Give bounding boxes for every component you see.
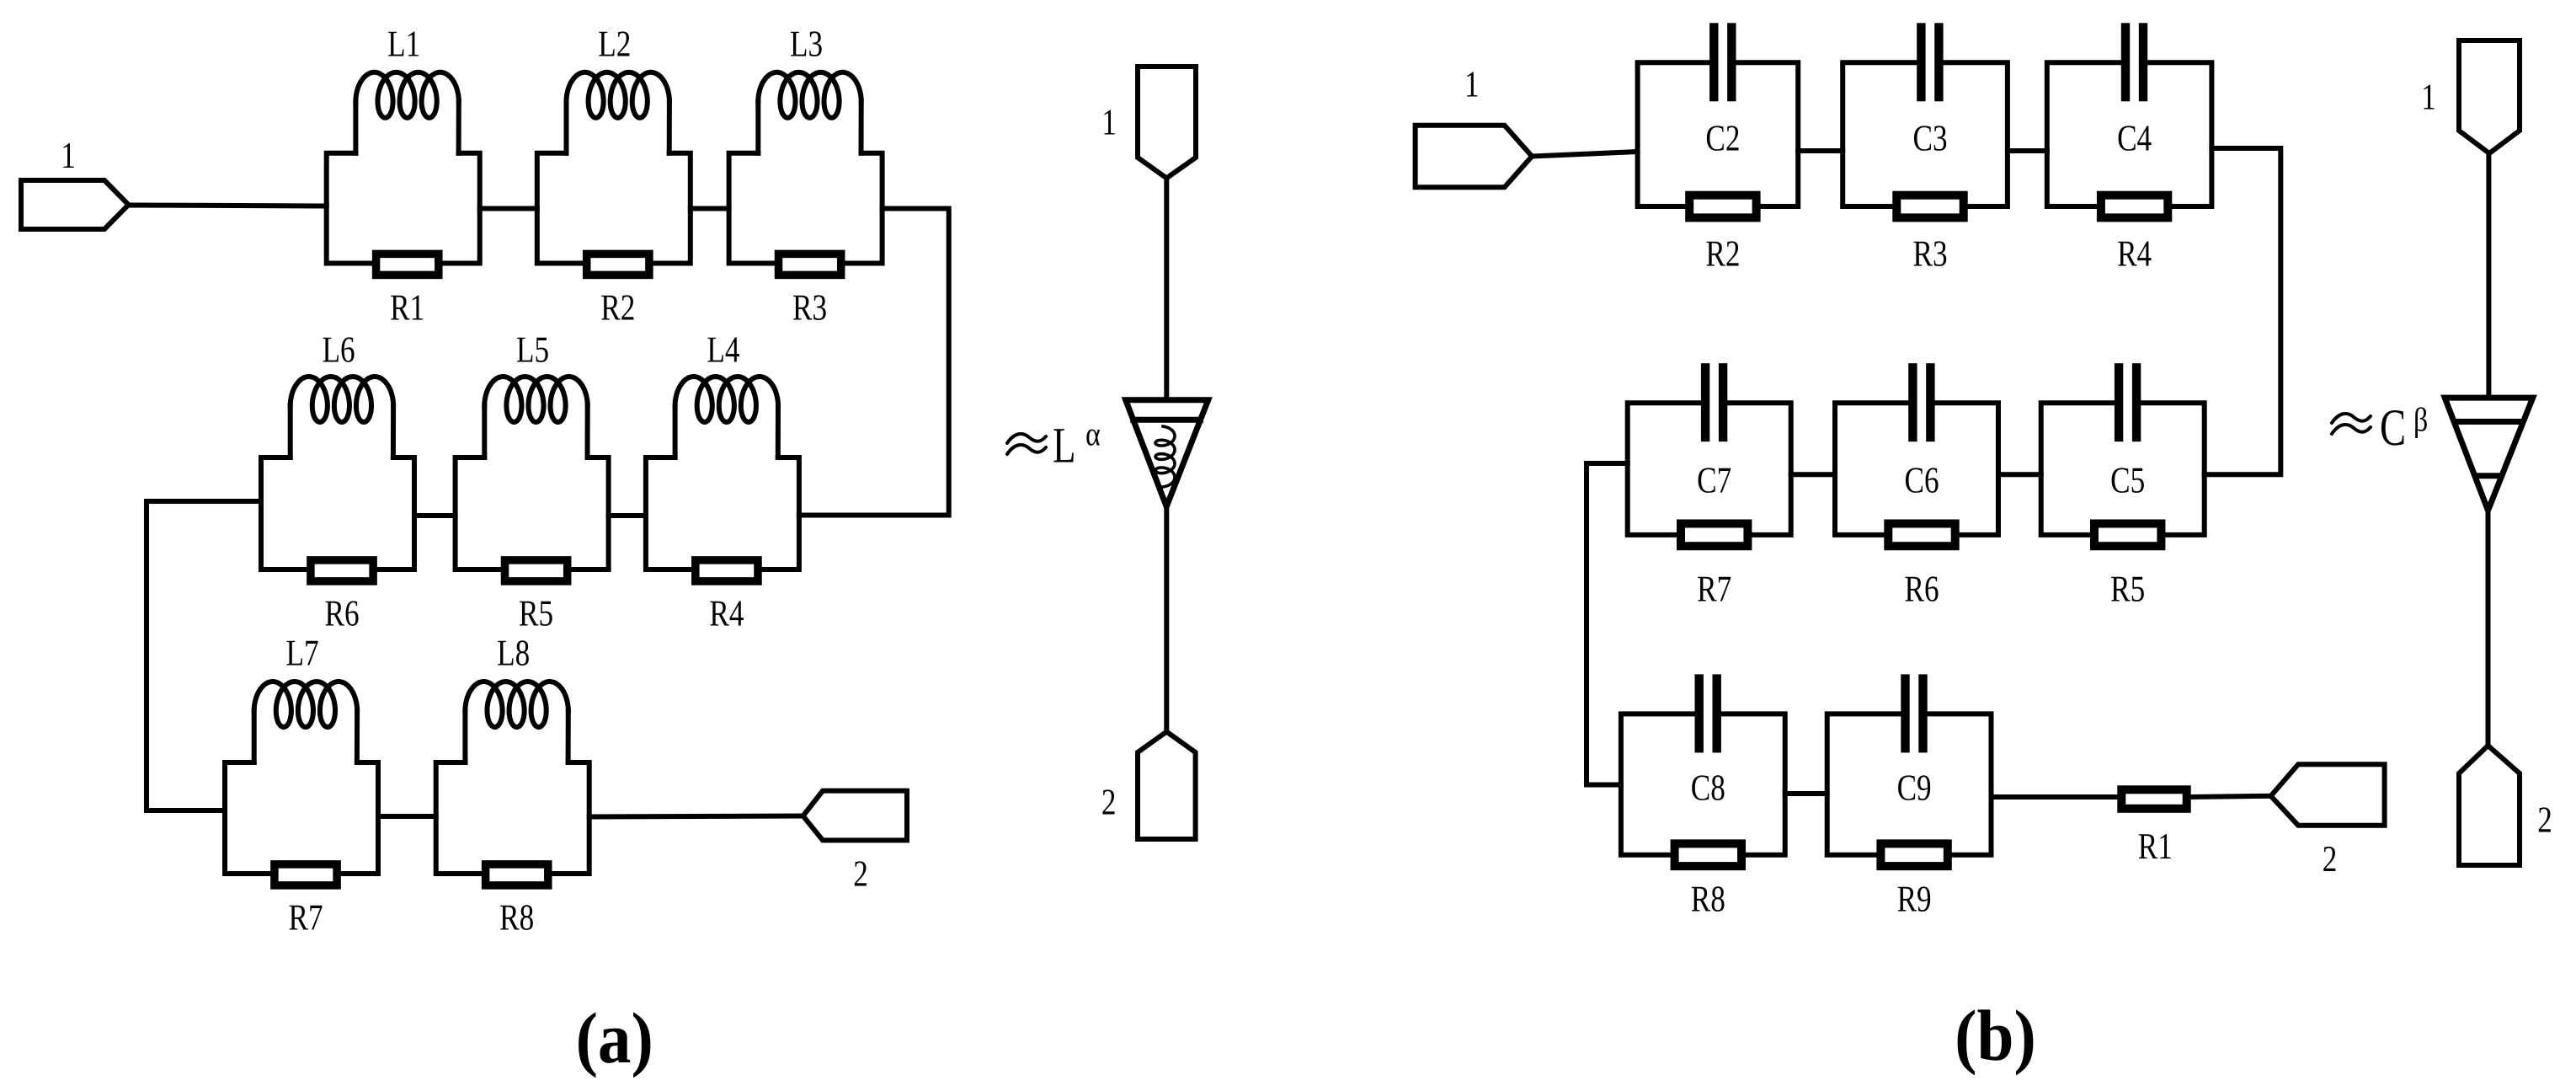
svg-text:L7: L7 bbox=[285, 633, 318, 674]
svg-text:R7: R7 bbox=[1697, 569, 1731, 610]
svg-text:R5: R5 bbox=[519, 593, 553, 634]
wire C7 down to row 3 (C8) bbox=[1587, 463, 1628, 785]
svg-text:2: 2 bbox=[1101, 782, 1117, 823]
wire C6 to C5 bbox=[1998, 472, 2041, 477]
wire L6 to L5 bbox=[414, 513, 456, 518]
wire: parallel loop box of L6/R6 bbox=[261, 457, 414, 570]
svg-text:C8: C8 bbox=[1691, 767, 1725, 809]
wire L3 down to row 2 (L4) bbox=[799, 209, 949, 516]
wire: parallel loop box of L2/R2 bbox=[537, 153, 691, 264]
resistor R9 bbox=[1880, 843, 1947, 866]
wire: parallel loop box of C2/R2 bbox=[1638, 62, 1799, 206]
inductor L7 bbox=[254, 682, 357, 762]
wire L6 down to row 3 (L7) bbox=[147, 501, 261, 810]
wire: parallel loop box of L1/R1 bbox=[327, 153, 480, 264]
svg-text:L1: L1 bbox=[387, 24, 420, 65]
svg-text:R8: R8 bbox=[1691, 879, 1725, 920]
svg-text:L: L bbox=[1053, 417, 1075, 473]
svg-text:L3: L3 bbox=[790, 24, 823, 65]
fractional inductor symbol (triangle with coil) bbox=[1126, 400, 1208, 507]
inductor L3 bbox=[758, 72, 861, 153]
resistor R7 bbox=[275, 864, 337, 885]
wire: parallel loop box of C3/R3 bbox=[1843, 62, 2008, 206]
fractional capacitor symbol (triangle with plates) bbox=[2445, 398, 2533, 511]
svg-text:L6: L6 bbox=[322, 329, 355, 371]
svg-text:R9: R9 bbox=[1897, 879, 1932, 920]
wire L5 to L4 bbox=[609, 513, 646, 518]
svg-text:C4: C4 bbox=[2117, 118, 2152, 159]
wire C9 to R1 bbox=[1992, 794, 2118, 800]
wire C3 to C4 bbox=[2008, 148, 2047, 153]
svg-text:2: 2 bbox=[2323, 838, 2338, 880]
inductor L2 bbox=[567, 72, 669, 153]
terminal port 1 (a) bbox=[21, 180, 129, 229]
capacitor C3 bbox=[1917, 23, 1925, 101]
wire port1 to C2 bbox=[1532, 152, 1637, 157]
wire: parallel loop box of C4/R4 bbox=[2047, 62, 2212, 206]
label approx L^alpha bbox=[1007, 434, 1046, 454]
wire: parallel loop box of L4/R4 bbox=[646, 457, 799, 570]
svg-text:R1: R1 bbox=[2138, 826, 2173, 867]
wire: parallel loop box of L5/R5 bbox=[456, 457, 609, 570]
svg-text:C7: C7 bbox=[1697, 460, 1731, 501]
capacitor C9 bbox=[1901, 674, 1909, 752]
wire L7 to L8 bbox=[378, 814, 436, 819]
wire: parallel loop box of C8/R8 bbox=[1621, 714, 1785, 854]
svg-text:1: 1 bbox=[1464, 64, 1480, 105]
svg-text:1: 1 bbox=[61, 135, 76, 176]
wire port1 to L1 bbox=[129, 206, 327, 206]
svg-text:R6: R6 bbox=[324, 593, 359, 634]
svg-text:R6: R6 bbox=[1904, 569, 1939, 610]
wire: parallel loop box of C6/R6 bbox=[1835, 403, 1998, 535]
wire L2 to L3 bbox=[691, 206, 729, 211]
coil inside fractional inductor bbox=[1155, 426, 1175, 487]
capacitor C5 bbox=[2115, 363, 2123, 441]
capacitor C2 bbox=[1709, 23, 1718, 101]
resistor R5 bbox=[505, 560, 568, 581]
inductor L8 bbox=[465, 682, 568, 762]
resistor R6 bbox=[311, 560, 373, 581]
resistor R4 bbox=[2101, 195, 2168, 218]
wire: parallel loop box of L3/R3 bbox=[729, 153, 883, 264]
svg-text:1: 1 bbox=[1101, 102, 1117, 143]
svg-text:R4: R4 bbox=[2117, 233, 2152, 275]
resistor R5 bbox=[2094, 524, 2161, 547]
svg-text:R5: R5 bbox=[2110, 569, 2145, 610]
wire: parallel loop box of C9/R9 bbox=[1827, 714, 1992, 854]
wire C7 to C6 bbox=[1791, 472, 1835, 477]
wire: parallel loop box of L8/R8 bbox=[436, 762, 589, 874]
terminal 1 of fractional capacitor symbol bbox=[2459, 40, 2520, 153]
resistor R2 bbox=[1689, 195, 1756, 218]
resistor R6 bbox=[1888, 524, 1955, 547]
svg-text:R8: R8 bbox=[499, 897, 534, 939]
svg-text:L8: L8 bbox=[497, 633, 530, 674]
svg-text:L4: L4 bbox=[707, 329, 739, 371]
terminal port 2 (a) bbox=[803, 791, 907, 841]
capacitor C8 bbox=[1695, 674, 1704, 752]
svg-text:C5: C5 bbox=[2110, 460, 2145, 501]
terminal 2 of fractional inductor symbol bbox=[1138, 732, 1196, 840]
svg-text:R7: R7 bbox=[288, 897, 323, 939]
resistor R8 bbox=[486, 864, 548, 885]
inductor L6 bbox=[291, 377, 393, 457]
svg-text:C6: C6 bbox=[1904, 460, 1939, 501]
capacitor C6 bbox=[1908, 363, 1917, 441]
svg-text:α: α bbox=[1085, 415, 1101, 453]
label approx C^beta bbox=[2332, 414, 2371, 434]
svg-text:R3: R3 bbox=[1912, 233, 1947, 275]
svg-text:C3: C3 bbox=[1912, 118, 1947, 159]
svg-text:(a): (a) bbox=[576, 997, 653, 1078]
svg-text:R3: R3 bbox=[792, 287, 827, 329]
inductor L4 bbox=[675, 377, 778, 457]
capacitor C4 bbox=[2121, 23, 2130, 101]
wire C8 to C9 bbox=[1785, 791, 1827, 796]
terminal 1 of fractional inductor symbol bbox=[1138, 67, 1196, 178]
resistor R4 bbox=[696, 560, 758, 581]
terminal port 2 (b) bbox=[2271, 764, 2385, 825]
svg-text:R4: R4 bbox=[709, 593, 744, 634]
inductor L1 bbox=[355, 72, 458, 153]
resistor R7 bbox=[1681, 524, 1747, 547]
wire C4 down to row 2 (C5) bbox=[2205, 148, 2281, 474]
svg-text:C9: C9 bbox=[1897, 767, 1932, 809]
svg-text:C2: C2 bbox=[1705, 118, 1740, 159]
wire fractional capacitor to terminal 2 bbox=[2486, 511, 2491, 746]
resistor R8 bbox=[1675, 843, 1741, 866]
wire L1 to L2 bbox=[480, 206, 537, 211]
svg-text:R2: R2 bbox=[600, 287, 635, 329]
wire terminal1 to fractional inductor bbox=[1164, 178, 1169, 399]
svg-text:1: 1 bbox=[2421, 77, 2436, 118]
svg-text:β: β bbox=[2413, 401, 2428, 439]
resistor R1 bbox=[376, 254, 439, 275]
svg-text:R1: R1 bbox=[390, 287, 424, 329]
resistor R2 bbox=[587, 254, 649, 275]
terminal 2 of fractional capacitor symbol bbox=[2459, 746, 2520, 865]
resistor R1 bbox=[2121, 789, 2186, 809]
wire terminal1 to fractional capacitor bbox=[2486, 153, 2491, 398]
svg-text:L2: L2 bbox=[598, 24, 631, 65]
wire R1 to port 2 (b) bbox=[2191, 796, 2271, 797]
svg-text:2: 2 bbox=[2537, 800, 2552, 841]
wire C2 to C3 bbox=[1798, 148, 1843, 153]
wire: parallel loop box of C7/R7 bbox=[1628, 403, 1791, 535]
svg-text:C: C bbox=[2380, 399, 2406, 457]
wire L8 to port 2 (a) bbox=[589, 816, 803, 817]
terminal port 1 (b) bbox=[1416, 126, 1533, 187]
wire fractional inductor to terminal 2 bbox=[1164, 506, 1169, 731]
wire: parallel loop box of C5/R5 bbox=[2041, 403, 2205, 535]
svg-text:2: 2 bbox=[853, 853, 868, 895]
wire: parallel loop box of L7/R7 bbox=[225, 762, 378, 874]
resistor R3 bbox=[1896, 195, 1963, 218]
svg-text:L5: L5 bbox=[516, 329, 549, 371]
svg-text:(b): (b) bbox=[1955, 995, 2036, 1076]
inductor L5 bbox=[484, 377, 587, 457]
capacitor C7 bbox=[1701, 363, 1709, 441]
resistor R3 bbox=[779, 254, 841, 275]
svg-text:R2: R2 bbox=[1705, 233, 1740, 275]
